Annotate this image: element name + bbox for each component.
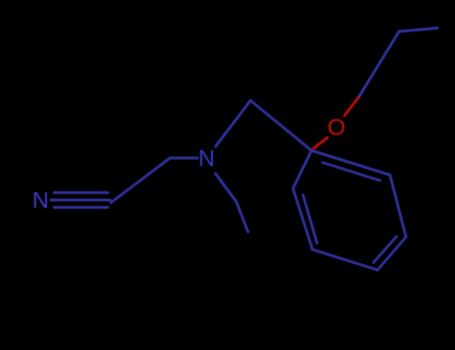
- svg-text:O: O: [328, 114, 346, 140]
- svg-text:N: N: [198, 145, 215, 171]
- svg-text:N: N: [32, 187, 49, 213]
